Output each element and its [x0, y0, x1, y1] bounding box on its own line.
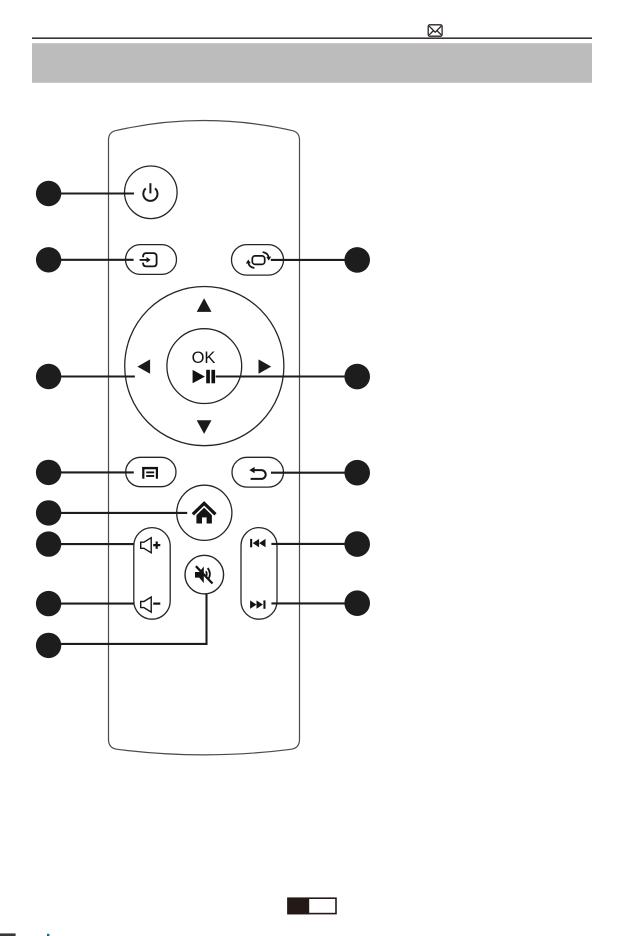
envelope icon: [428, 25, 442, 36]
skip rocker: [241, 528, 277, 620]
mute button: [185, 555, 224, 594]
play/pause icon: [193, 370, 205, 383]
power icon: [143, 183, 157, 201]
right triangle: [259, 359, 272, 373]
wire power: [50, 192, 134, 194]
wire home: [50, 512, 187, 514]
d-pad outer ring: [125, 287, 284, 446]
skip back icon: [250, 539, 265, 547]
wire vol up: [50, 543, 134, 545]
callout dot 3 left: [36, 364, 61, 389]
bottom-left print marks: [0, 933, 16, 936]
callout dot 7 vol down: [36, 591, 61, 616]
callout dot R4 skip back: [344, 531, 370, 557]
skip forward icon: [250, 600, 265, 608]
header gray bar: [32, 43, 592, 83]
callout dot R3 back: [344, 460, 370, 486]
wire ok: [216, 375, 356, 377]
rotate button: [232, 245, 284, 276]
d-pad inner circle: [167, 329, 242, 404]
source icon: [140, 253, 157, 266]
callout dot 4 menu: [36, 460, 61, 485]
svg-text:OK: OK: [192, 349, 216, 367]
wire rotate: [271, 259, 356, 261]
footer color boxes: [287, 898, 336, 915]
header rule: [32, 37, 592, 39]
rotate icon: [248, 252, 268, 268]
home button: [177, 485, 232, 540]
left triangle: [137, 359, 150, 373]
wire skip fwd: [271, 602, 356, 604]
wire back: [271, 472, 356, 474]
callout dot 8 mute: [36, 633, 61, 658]
volume up icon: [141, 538, 161, 553]
back button: [232, 457, 284, 487]
wire source: [50, 259, 134, 261]
callout dot R5 skip fwd: [344, 590, 370, 616]
power button: [125, 166, 178, 219]
wire left: [50, 375, 135, 377]
callout dot 5 home: [36, 500, 61, 525]
remote body: [109, 121, 300, 755]
callout dot R1 rotate: [344, 247, 370, 273]
wire mute elbow: [50, 594, 207, 644]
wire menu: [50, 471, 134, 473]
up triangle: [197, 298, 212, 312]
wire vol down: [50, 603, 134, 605]
callout dot 6 vol up: [36, 531, 61, 556]
callout dot 2 source: [36, 247, 61, 272]
callout dot 1 power: [36, 181, 61, 206]
back icon: [251, 470, 266, 479]
mute icon: [195, 566, 213, 583]
volume rocker: [134, 528, 170, 620]
wire skip back: [271, 543, 356, 545]
home icon: [193, 503, 216, 514]
volume down icon: [141, 597, 161, 612]
source button: [126, 245, 177, 275]
menu button: [126, 457, 176, 486]
menu icon: [142, 467, 158, 479]
callout dot R2 ok: [344, 364, 370, 390]
down triangle: [197, 420, 212, 434]
